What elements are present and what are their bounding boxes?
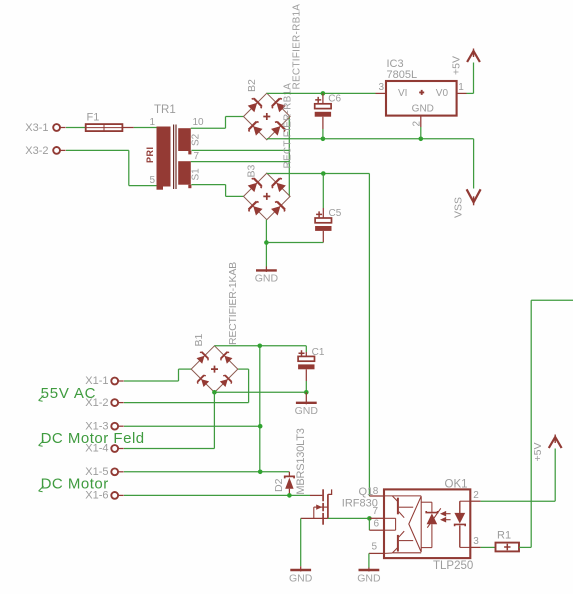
svg-text:GND: GND (357, 572, 381, 584)
wire (191, 149, 289, 151)
svg-text:2: 2 (473, 490, 479, 501)
wire (265, 220, 267, 267)
wire (OK1 pin 8 stub) (369, 495, 384, 497)
connector pin X1-2 (111, 399, 118, 406)
wire (178, 369, 180, 381)
svg-text:+5V: +5V (532, 443, 544, 462)
wire (pin stub) (122, 127, 133, 129)
wire (124, 494, 310, 496)
wire (129, 185, 157, 187)
ground (below OK1) (368, 568, 370, 572)
wire (554, 449, 556, 502)
wire (368, 553, 370, 567)
wire (215, 345, 307, 347)
wire (OK1 pin 3 stub) (470, 546, 480, 548)
svg-text:X3-2: X3-2 (25, 145, 48, 157)
svg-text:1: 1 (149, 117, 155, 128)
junction X1-3 (258, 424, 263, 429)
svg-text:GND: GND (255, 273, 279, 285)
plus symbol in IC3 (419, 90, 424, 95)
svg-text:7: 7 (373, 506, 379, 517)
wire (473, 63, 475, 94)
svg-text:DC Motor Feld: DC Motor Feld (41, 430, 145, 447)
svg-text:RECTIFIER-1KAB: RECTIFIER-1KAB (227, 262, 239, 345)
wire (134, 127, 157, 129)
svg-text:5: 5 (149, 175, 155, 186)
svg-text:B2: B2 (246, 79, 258, 92)
transistor Q1 IRF830 (N-MOSFET) (301, 489, 332, 524)
OK1 light arrows (441, 512, 450, 522)
net label DC Motor Feld (39, 441, 44, 447)
junction B1 top (258, 344, 263, 349)
junction OK1 pins 7-6 (367, 516, 372, 521)
wire (191, 161, 289, 163)
wire (66, 149, 129, 151)
resistor R1 (496, 543, 520, 552)
svg-text:3: 3 (378, 82, 384, 93)
bridge rectifier B2 (244, 93, 291, 140)
wire (long vertical to OK1 pin 8) (368, 174, 370, 497)
voltage regulator IC3 7805L (386, 81, 457, 116)
wire (OK1 pin 6 stub) (369, 529, 384, 531)
wire (266, 242, 323, 244)
wire (IC3 GND pin stub) (420, 116, 422, 127)
ground (below C1) (305, 392, 307, 404)
svg-text:TR1: TR1 (154, 104, 176, 116)
svg-text:VSS: VSS (453, 197, 465, 218)
svg-text:S1: S1 (191, 168, 202, 181)
svg-text:C5: C5 (329, 208, 342, 219)
wire (368, 518, 370, 530)
svg-text:7805L: 7805L (387, 69, 418, 81)
junction B1 bottom (212, 390, 217, 395)
junction IC3 GND (419, 137, 424, 142)
wire (124, 380, 179, 382)
capacitor C5 (322, 174, 324, 209)
svg-text:1: 1 (458, 82, 464, 93)
wire (124, 471, 289, 473)
wire (225, 185, 227, 197)
connector pin X1-1 (111, 378, 118, 385)
supply +5V arrow (right) (549, 437, 562, 448)
svg-text:5: 5 (372, 541, 378, 552)
connector pin X1-3 (111, 423, 118, 430)
wire (OK1 pin 7 stub) (369, 517, 384, 519)
wire (225, 117, 227, 129)
connector pin X1-4 (111, 445, 118, 452)
junction X1-6 / D2 (287, 493, 292, 498)
svg-text:7: 7 (194, 151, 200, 162)
wire (124, 448, 214, 450)
svg-text:GND: GND (412, 104, 434, 115)
svg-text:VI: VI (398, 88, 407, 99)
connector pin X3-1 (53, 124, 60, 131)
wire (191, 127, 226, 129)
wire (124, 402, 249, 404)
svg-text:PRI: PRI (145, 146, 155, 163)
junction C1 bottom (304, 390, 309, 395)
svg-text:RECTIFIER-RB1A: RECTIFIER-RB1A (283, 83, 294, 169)
ground (below Q1) (300, 566, 302, 571)
svg-text:R1: R1 (497, 530, 511, 542)
junction C6 bottom (321, 137, 326, 142)
wire (128, 150, 130, 185)
junction C5 top (321, 171, 326, 176)
optocoupler OK1 TLP250 box (384, 489, 470, 558)
capacitor C6 (322, 93, 324, 103)
wire (124, 425, 260, 427)
bridge rectifier B1 (191, 346, 238, 393)
wire (481, 500, 556, 502)
bridge rectifier B3 (244, 173, 291, 220)
junction X1-5 (258, 470, 263, 475)
svg-text:DC Motor: DC Motor (41, 475, 109, 492)
wire (226, 116, 244, 118)
wire (OK1 pin 5 stub) (369, 552, 384, 554)
OK1 input LED (454, 501, 470, 547)
net label DC Motor (39, 486, 44, 492)
wire (267, 92, 376, 94)
svg-text:D2: D2 (273, 478, 285, 492)
ground (below B3) (265, 267, 267, 272)
svg-text:V0: V0 (436, 88, 449, 99)
svg-text:C6: C6 (328, 93, 341, 104)
svg-text:F1: F1 (87, 112, 100, 124)
svg-text:8: 8 (373, 486, 379, 497)
fuse F1 (86, 124, 123, 131)
wire (214, 391, 306, 393)
svg-text:S2: S2 (191, 133, 202, 146)
supply VSS arrow (467, 189, 481, 202)
net label 55V AC (39, 396, 44, 402)
wire (Q1 source to GND) (300, 518, 302, 566)
wire (213, 392, 215, 448)
wire (467, 92, 474, 94)
capacitor C1 (305, 346, 307, 352)
wire (IC3 VI pin stub) (376, 92, 387, 94)
connector pin X1-6 (111, 492, 118, 499)
svg-text:+5V: +5V (450, 56, 462, 75)
svg-text:B1: B1 (193, 333, 205, 346)
svg-text:X3-1: X3-1 (25, 122, 48, 134)
wire (IC3 VO pin stub) (457, 92, 467, 94)
connector pin X3-2 (53, 147, 60, 154)
OK1 internals (385, 496, 421, 554)
wire (179, 368, 192, 370)
svg-text:10: 10 (193, 117, 205, 128)
svg-text:GND: GND (289, 572, 313, 584)
junction C6 top (321, 91, 326, 96)
wire (Q1 gate stub) (310, 494, 322, 496)
wire (OK1 pin 2 stub) (470, 500, 480, 502)
svg-text:GND: GND (295, 405, 319, 417)
wire to VSS (473, 139, 475, 189)
transformer TR1 (157, 125, 192, 190)
svg-text:RECTIFIER-RB1A: RECTIFIER-RB1A (292, 4, 303, 90)
OK1 internal zener diode (421, 502, 441, 547)
wire (420, 127, 422, 139)
wire (off right edge) (531, 299, 573, 301)
svg-text:OK1: OK1 (445, 479, 468, 491)
svg-text:B3: B3 (246, 164, 258, 177)
wire (vertical X1-3/X1-5 net) (259, 346, 261, 472)
supply +5V arrow (467, 51, 480, 62)
junction B3 bottom (264, 240, 269, 245)
svg-text:3: 3 (473, 536, 479, 547)
wire (191, 184, 225, 186)
wire (248, 369, 250, 403)
wire (267, 173, 370, 175)
wire (238, 368, 249, 370)
svg-text:55V AC: 55V AC (41, 385, 97, 402)
wire (226, 195, 244, 197)
connector pin X1-5 (111, 468, 118, 475)
wire (66, 127, 86, 129)
diode D2 MBRS130LT3 (285, 472, 294, 496)
wire (481, 546, 496, 548)
svg-text:C1: C1 (312, 347, 325, 358)
wire (288, 117, 290, 197)
svg-text:6: 6 (374, 518, 380, 529)
wire (328, 517, 370, 519)
wire (267, 138, 474, 140)
wire (long vertical right) (530, 300, 532, 547)
svg-text:MBRS130LT3: MBRS130LT3 (295, 428, 307, 494)
wire (519, 546, 531, 548)
svg-text:TLP250: TLP250 (433, 560, 473, 572)
